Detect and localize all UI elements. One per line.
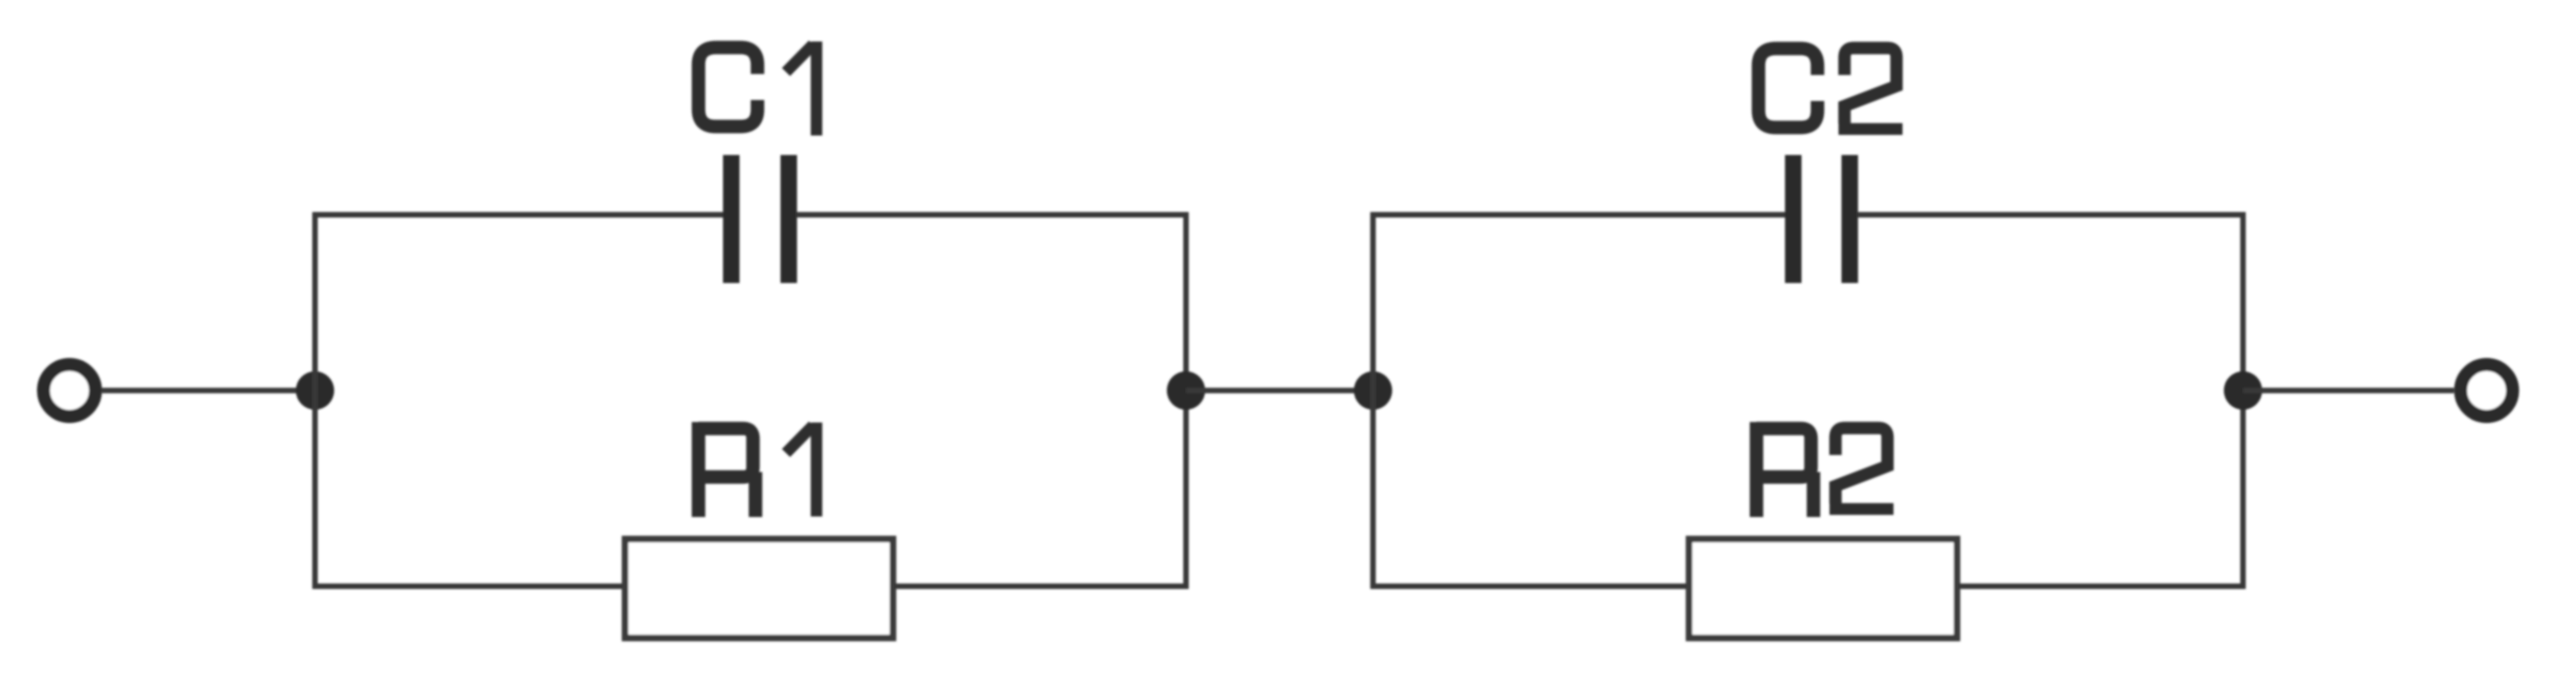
node B junction dot xyxy=(1167,371,1205,409)
label C2 xyxy=(1759,48,1903,129)
label R2 xyxy=(1757,422,1894,517)
node A junction dot xyxy=(296,371,334,409)
output terminal xyxy=(2461,365,2513,417)
input terminal xyxy=(44,365,96,417)
resistor R1 xyxy=(625,539,893,638)
wire right vertical of section 1 xyxy=(1183,212,1189,589)
wire node D to output xyxy=(2243,388,2454,394)
wire node B to node C xyxy=(1186,388,1373,394)
wire input to node A xyxy=(102,388,315,394)
wire top-left to C2 xyxy=(1371,212,1787,218)
wire right vertical of section 2 xyxy=(2240,212,2246,589)
label C1 xyxy=(699,42,817,136)
wire bottom-left to R1 xyxy=(313,583,625,589)
capacitor C2 xyxy=(1785,155,1858,283)
wire left vertical of section 1 xyxy=(312,212,318,589)
wire top-left to C1 xyxy=(313,212,725,218)
wire C1 to top-right xyxy=(796,212,1189,218)
node D junction dot xyxy=(2224,371,2262,409)
label R1 xyxy=(699,422,817,517)
wire R2 to bottom-right xyxy=(1958,583,2246,589)
node C junction dot xyxy=(1354,371,1392,409)
wire left vertical of section 2 xyxy=(1370,212,1376,589)
capacitor C1 xyxy=(723,155,797,283)
wire bottom-left to R2 xyxy=(1371,583,1689,589)
wire R1 to bottom-right xyxy=(894,583,1189,589)
resistor R2 xyxy=(1689,539,1957,638)
wire C2 to top-right xyxy=(1857,212,2246,218)
